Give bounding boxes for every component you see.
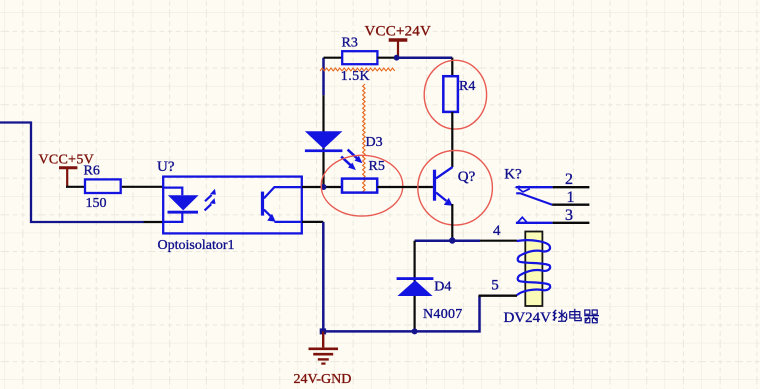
wire: ground rail [322, 296, 479, 332]
D3 emission arrows [341, 150, 362, 171]
wire: VCC+5V to R6 [66, 186, 85, 188]
wire: R3 right to VCC junction [377, 57, 394, 59]
pin 3 [516, 222, 553, 224]
junction at emitter / relay node [449, 237, 455, 243]
svg-text:K?: K? [504, 167, 522, 183]
svg-text:4: 4 [493, 223, 501, 239]
wire: R3 branch vertical (navy upper part) [322, 58, 325, 96]
error squiggle vertical at D3/R5 [363, 84, 366, 192]
power port VCC+5V [39, 152, 95, 187]
resistor R4 [443, 76, 475, 112]
wire: R5 to Q base [377, 186, 433, 188]
label DV24V继电器 [504, 309, 600, 326]
svg-text:VCC+24V: VCC+24V [365, 24, 432, 40]
svg-text:N4007: N4007 [423, 307, 463, 322]
armature to pin 1 [516, 193, 552, 204]
resistor R6 [84, 164, 121, 193]
transistor Q? [433, 167, 476, 206]
optoisolator phototransistor [261, 187, 302, 222]
diode D4 [397, 277, 434, 296]
svg-text:2: 2 [565, 171, 573, 188]
svg-text:DV24V: DV24V [504, 310, 552, 326]
svg-text:150: 150 [86, 196, 107, 211]
wire: input net from left edge to optoisolator cathode [0, 123, 164, 223]
junction at VCC+24V node [394, 55, 400, 61]
highlight ellipse around R4 [424, 60, 486, 129]
resistor R5 [342, 159, 385, 193]
svg-text:5: 5 [491, 277, 499, 293]
highlight circle around Q? [418, 151, 493, 226]
wire: VCC junction to R4 [397, 58, 453, 76]
error squiggle under R3 [320, 68, 395, 71]
wire: D3 pins vertical (black) [322, 95, 324, 187]
wire: R4 to Q collector [451, 112, 453, 167]
svg-text:R6: R6 [84, 164, 100, 179]
power port VCC+24V [365, 24, 432, 57]
junction at ground rail [320, 328, 326, 334]
ground 24V-GND [294, 331, 352, 386]
wire: R3 left [324, 57, 342, 59]
op-toisolator U? body [157, 159, 302, 233]
wire: relay coil node horizontal [415, 239, 517, 242]
relay K? coil [517, 232, 550, 307]
svg-text:R3: R3 [342, 36, 358, 51]
svg-text:U?: U? [157, 159, 175, 175]
pin 2 [516, 186, 553, 188]
wire: relay pin5 stub [479, 295, 518, 297]
svg-text:R5: R5 [369, 159, 385, 174]
svg-text:3: 3 [565, 207, 573, 224]
svg-text:D3: D3 [366, 135, 383, 150]
optoisolator LED [163, 188, 198, 222]
wire: opto collector to R5 [302, 186, 342, 188]
junction at D3 / R5 node [321, 184, 327, 190]
highlight ellipse around R5 [321, 155, 403, 216]
svg-text:Q?: Q? [458, 169, 476, 185]
wire: opto emitter to ground rail [302, 222, 323, 332]
svg-text:Optoisolator1: Optoisolator1 [158, 238, 235, 253]
wire: D4 branch vertical [414, 241, 416, 332]
svg-text:R4: R4 [459, 79, 475, 94]
diode D3 (LED) [305, 131, 343, 152]
optoisolator light arrows [205, 189, 216, 211]
svg-text:1: 1 [567, 189, 575, 206]
svg-text:D4: D4 [434, 280, 451, 295]
relay K? contacts [504, 167, 589, 224]
wire: R6 to optoisolator anode [122, 186, 164, 188]
resistor R3 [342, 36, 378, 65]
junction at D4 / rail [412, 328, 418, 334]
svg-text:24V-GND: 24V-GND [294, 372, 352, 387]
wire: Q emitter down [451, 204, 453, 241]
